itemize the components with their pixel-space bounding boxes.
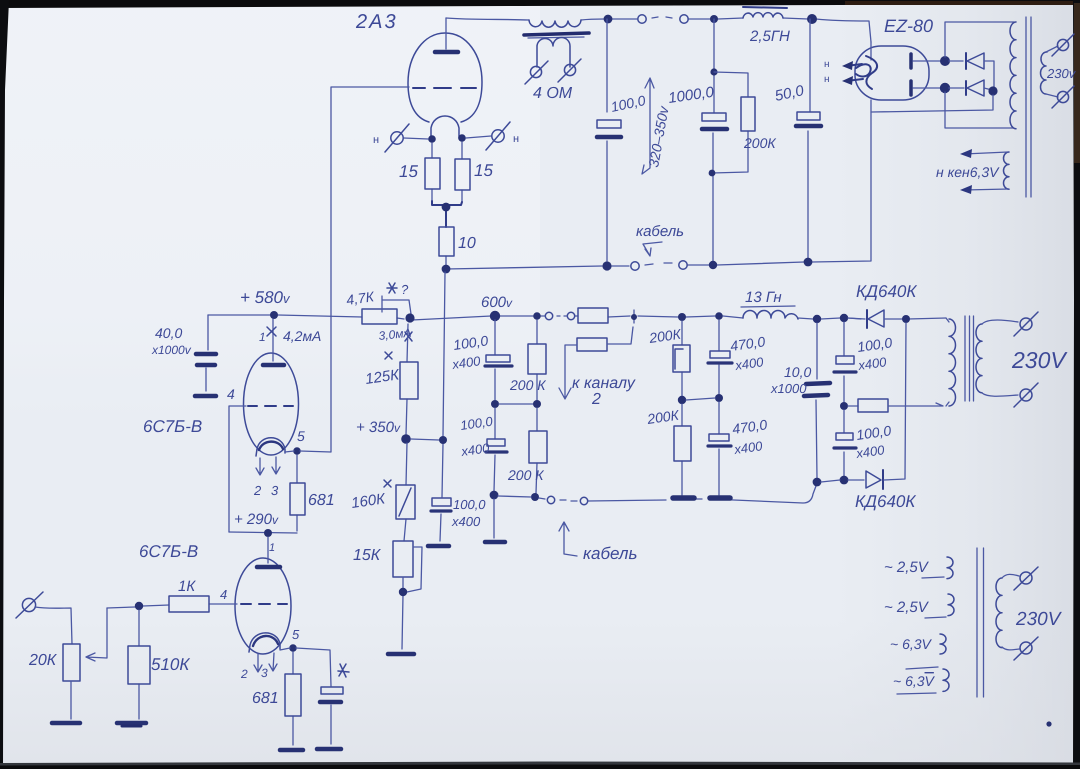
label 6S7B-V lower: [139, 542, 198, 561]
svg-text:2: 2: [253, 483, 262, 498]
svg-text:х1000: х1000: [770, 381, 807, 396]
wire B+ top bus y=19: [446, 18, 871, 42]
tube EZ-80 heater leads H arrows: [824, 59, 863, 85]
label 1K: [178, 578, 196, 595]
wire +290V bus: [229, 532, 297, 533]
resistor 200K psu bleeder: [712, 72, 755, 173]
svg-text:+ 580v: + 580v: [240, 288, 291, 307]
node dot col5 mid: [840, 402, 848, 410]
transformer mains 6,3V winding: [1004, 152, 1010, 189]
node dot driver anode: [270, 311, 278, 319]
ground 681 V2: [280, 748, 303, 753]
svg-text:15К: 15К: [353, 547, 382, 564]
label 15 right: [474, 161, 493, 180]
svg-text:н кен6,3V: н кен6,3V: [936, 164, 1000, 180]
svg-text:КД640К: КД640К: [855, 492, 916, 511]
node dot 50uF top: [807, 14, 817, 24]
connector o- -o bus: [631, 261, 687, 270]
transformer T3 winding 6,3V row4: [893, 667, 949, 694]
label +290V: [234, 511, 279, 528]
node dot 2A3 cathode return: [442, 265, 451, 274]
label 100,0 x400 at +350 column: [451, 497, 486, 529]
tube V2 6S7B envelope: [235, 558, 291, 654]
tube EZ-80 heater: [856, 56, 877, 89]
capacitor 100,0 first filter: [597, 19, 621, 261]
resistor 1K: [169, 596, 209, 612]
node dot rectifier output: [988, 86, 997, 95]
svg-text:10,0: 10,0: [784, 364, 811, 380]
svg-text:~ 6,3V: ~ 6,3V: [893, 673, 936, 689]
resistor 510K: [128, 610, 150, 719]
svg-text:EZ-80: EZ-80: [884, 16, 933, 36]
diode KD640K bottom: [848, 323, 906, 489]
node dot col3 mid: [678, 396, 686, 404]
terminal H right: [466, 122, 519, 150]
node dot 10,0 top: [813, 315, 821, 323]
choke 13Gn label underline: [741, 289, 795, 307]
choke L2 2,5Gn coil: [743, 13, 783, 18]
node dot B+ at OPT: [604, 15, 613, 24]
resistor 15 left: [425, 143, 440, 201]
transformer OPT secondary: [537, 38, 570, 68]
svg-text:15: 15: [399, 162, 418, 181]
arrows pins 2 3 V1: [253, 457, 280, 498]
svg-text:кабель: кабель: [583, 544, 637, 563]
resistor 200K col2 upper: [528, 320, 546, 400]
resistor 681 V1: [290, 455, 305, 531]
transformer T3 winding 6,3V row3: [890, 634, 946, 654]
svg-text:5: 5: [297, 428, 305, 444]
svg-text:230V: 230V: [1015, 609, 1063, 630]
label 230V T3: [1015, 609, 1063, 630]
svg-text:4 ОМ: 4 ОМ: [533, 85, 573, 102]
ground col1 below bus: [485, 499, 505, 542]
terminal T3 230V bottom: [1002, 637, 1038, 660]
ground 100,0 +350 column: [428, 544, 449, 549]
wire HV winding top to anode: [945, 22, 1014, 57]
terminal input jack: [16, 592, 43, 618]
node dot col5 bottom: [840, 476, 849, 485]
label 1 x 4,2mA: [259, 327, 321, 344]
label 2,5Gn: [749, 28, 790, 45]
capacitor 40,0 input B+: [196, 315, 216, 391]
label 100,0 x400 col1 lower: [459, 413, 494, 459]
label 15 left: [399, 162, 418, 181]
label 6S7B-V upper: [143, 417, 202, 436]
node dot diode top right: [902, 315, 910, 323]
wire filament join: [432, 201, 462, 227]
node dot V1 cathode: [293, 447, 301, 455]
resistor link to OPT primary: [848, 399, 943, 412]
potentiometer 20k: [63, 608, 107, 719]
label 1000,0: [667, 84, 715, 107]
connector o- -o 600V rail: [545, 312, 574, 319]
node dot col1 bus: [490, 491, 499, 500]
label 100,0 x400 col5 lower: [854, 422, 892, 461]
capacitor 100,0 col1 upper: [485, 320, 512, 400]
transformer mains core top: [1026, 17, 1031, 197]
mark star cathode cap: [338, 664, 349, 677]
resistor 200K col3 lower: [674, 404, 691, 495]
wire PSU ground bus y=265: [446, 112, 871, 269]
wire V1 cathode to 2A3 grid: [285, 87, 409, 452]
tube EZ-80 envelope: [855, 42, 929, 100]
resistor 4,7K with arrow: [362, 296, 411, 324]
label pin 5 V2: [292, 627, 300, 642]
capacitor 100,0 col5 upper: [834, 322, 856, 402]
label 10,0 x1000: [770, 364, 811, 396]
tube 2A3 envelope: [408, 33, 482, 122]
wire col3-col4 mid link: [686, 398, 715, 400]
wire +580V rail: [208, 315, 946, 320]
svg-text:4,2мА: 4,2мА: [283, 328, 321, 344]
label x 125k: [364, 352, 401, 388]
wire +350V to 2A3 cathode column: [411, 272, 445, 497]
terminal T3 230V top: [1002, 567, 1038, 590]
tube V1 cathode arch: [256, 438, 285, 456]
svg-text:~ 2,5V: ~ 2,5V: [884, 599, 930, 616]
ground 20k pot: [52, 721, 80, 726]
label 230V T2: [1011, 347, 1068, 373]
diode bottom at EZ-80: [949, 80, 992, 96]
label kabel bottom with arrow: [559, 522, 637, 563]
label 200K col3 lower: [645, 407, 680, 427]
node dot bus 50uF: [804, 258, 813, 267]
node dot 470 col4 top: [715, 312, 723, 320]
node dot 200K col2 top: [533, 312, 541, 320]
svg-text:~ 2,5V: ~ 2,5V: [884, 559, 930, 576]
label KD640K top: [856, 282, 917, 301]
svg-text:510К: 510К: [151, 655, 190, 674]
terminal T2 sec bottom: [982, 383, 1038, 407]
label 100,0 x400 col5 upper: [856, 334, 893, 373]
svg-text:4: 4: [220, 587, 227, 602]
svg-text:~ 6,3V: ~ 6,3V: [890, 636, 933, 652]
terminal 230V bottom: [1046, 86, 1074, 108]
label pin 1 V2: [269, 542, 275, 554]
label 100,0 x400 col1 upper: [450, 332, 489, 372]
connector o---o top B+: [638, 15, 688, 23]
svg-text:10: 10: [458, 235, 476, 252]
node dot col4 mid: [715, 394, 723, 402]
label EZ-80: [884, 16, 933, 36]
label n ken 6,3V: [936, 164, 1000, 180]
svg-text:кабель: кабель: [636, 223, 684, 240]
resistor link channel upper: [578, 308, 608, 323]
svg-text:600v: 600v: [481, 294, 513, 311]
terminal OPT out right: [558, 59, 581, 82]
svg-text:13 Гн: 13 Гн: [745, 289, 782, 306]
label pin 5 V1: [297, 428, 305, 444]
label 470,0 x400 col4 upper: [729, 333, 766, 373]
svg-text:681: 681: [252, 690, 279, 707]
wire channel bus y=500: [498, 486, 816, 503]
svg-text:х1000v: х1000v: [151, 343, 192, 357]
transformer T2 secondary coil: [976, 324, 982, 393]
node dot anode bottom: [940, 83, 950, 93]
svg-text:2: 2: [591, 391, 601, 408]
svg-text:200К: 200К: [743, 135, 776, 151]
node dot 1000uF top: [710, 15, 718, 23]
svg-text:40,0: 40,0: [155, 325, 182, 341]
tube V2 grid dashes: [241, 603, 287, 605]
node dot 10,0 bottom: [813, 478, 822, 487]
svg-text:5: 5: [292, 627, 300, 642]
node dot col2 bus: [531, 493, 539, 501]
label +350V: [356, 419, 401, 436]
label 10: [458, 235, 476, 252]
resistor 200K col2 lower: [529, 408, 547, 493]
label 230V top transformer: [1046, 66, 1077, 81]
svg-text:4: 4: [227, 386, 235, 402]
transformer mains HV winding: [1010, 22, 1016, 129]
label 200 K col2 lower: [507, 467, 544, 483]
svg-text:н: н: [373, 134, 379, 146]
tube V1 anode: [263, 319, 284, 365]
node dot filament left: [428, 135, 436, 143]
ground bar col3 on bus: [673, 495, 694, 501]
node dot 200K top tap: [710, 68, 717, 75]
ground 510K: [117, 723, 146, 726]
capacitor 10,0 x1000: [804, 323, 830, 478]
svg-text:230V: 230V: [1011, 347, 1068, 373]
node dot 200K bottom tap: [709, 170, 716, 177]
choke 13Gn coil: [743, 311, 798, 320]
transformer T3 winding 2,5V row1: [884, 557, 953, 579]
terminal OPT out left: [525, 61, 548, 84]
svg-text:х400: х400: [451, 514, 481, 529]
wire V2 cathode node: [280, 648, 331, 686]
pen dot mark: [1046, 721, 1051, 726]
capacitor 100,0 col5 lower: [834, 410, 856, 476]
label 20k: [28, 652, 58, 669]
label 470,0 x400 col4 lower: [731, 416, 768, 457]
tube V1 6S7B envelope: [244, 353, 299, 455]
transformer T2 core: [965, 316, 974, 401]
label 40,0 x1000v: [151, 325, 192, 357]
tube 2A3 grid dashes: [413, 87, 476, 89]
svg-text:2,5ГН: 2,5ГН: [749, 28, 790, 45]
svg-text:3: 3: [271, 483, 279, 498]
label Kabel top with arrow: [636, 223, 684, 256]
tube V1 grid dashes: [248, 405, 293, 407]
wire input to pot: [35, 607, 72, 644]
transformer T3 230V winding: [996, 578, 1002, 648]
ground star cap: [317, 747, 341, 752]
label 4 OM: [533, 85, 573, 102]
label 100,0 first filter: [609, 92, 647, 115]
capacitor 100,0 col1 lower: [486, 408, 507, 491]
label x 160k: [350, 480, 391, 512]
svg-text:2: 2: [240, 667, 248, 681]
svg-text:к каналу: к каналу: [572, 375, 636, 392]
svg-text:230v: 230v: [1046, 66, 1077, 81]
label 200 K col2 upper: [509, 377, 546, 393]
label pin 4 V2: [220, 587, 227, 602]
node dot 15K bottom: [399, 588, 407, 596]
wire 6,3V arrows: [960, 149, 1009, 194]
connector o- -o channel bus: [547, 496, 587, 504]
wire 10,0 to col5 bottom: [821, 480, 840, 482]
capacitor star cathode bypass: [320, 687, 343, 744]
node dot anode top: [940, 56, 950, 66]
label 510K: [151, 655, 190, 674]
transformer T3 winding 2,5V row2: [884, 594, 954, 618]
label 681 V2: [252, 690, 279, 707]
wire HV winding bottom to anode: [945, 92, 1014, 128]
label KD640K bottom: [855, 492, 916, 511]
node dot +290V: [264, 529, 272, 537]
choke L2 2,5Gn core line: [743, 7, 787, 8]
terminal H left: [373, 124, 428, 152]
diode top at EZ-80: [949, 53, 994, 87]
svg-text:6С7Б-В: 6С7Б-В: [143, 417, 202, 436]
capacitor 470,0 col4 lower: [708, 402, 731, 495]
svg-text:+ 350v: + 350v: [356, 419, 401, 436]
resistor 125K: [400, 324, 418, 435]
tube EZ-80 anode top: [911, 54, 941, 68]
node dot 510K: [135, 602, 143, 610]
capacitor 1000,0: [702, 19, 727, 261]
svg-text:н: н: [824, 74, 830, 85]
svg-text:1: 1: [269, 542, 275, 554]
node dot bus 1000uF: [709, 261, 717, 269]
wire col1-col2 mid link: [499, 403, 533, 405]
label 200K psu: [743, 135, 776, 151]
svg-text:КД640К: КД640К: [856, 282, 917, 301]
transformer mains 230V primary winding: [1041, 52, 1048, 94]
terminal T2 sec top: [982, 312, 1038, 336]
resistor 200K col3 upper: [673, 321, 690, 396]
resistor 160k: [396, 443, 415, 541]
node dot filament right: [458, 134, 466, 142]
label 681 V1: [308, 492, 335, 509]
mark x? 4,7K: [387, 282, 409, 297]
wire grid input line: [107, 604, 237, 608]
resistor 681 V2: [285, 652, 301, 745]
diode KD640K top: [848, 310, 903, 328]
svg-text:6С7Б-В: 6С7Б-В: [139, 542, 198, 561]
wire rectifier output to bus: [871, 95, 993, 112]
node dot 200K col3 top: [678, 313, 686, 321]
svg-text:1К: 1К: [178, 578, 196, 595]
label 4,7K: [345, 288, 375, 308]
terminal 230V top: [1046, 34, 1074, 56]
label 200K col3 upper: [647, 326, 682, 346]
transformer OPT primary coil: [529, 20, 581, 27]
tube EZ-80 anode bottom: [911, 81, 941, 95]
node dot 4,7K out: [405, 313, 414, 322]
resistor link to channel 2: [559, 327, 633, 399]
tube V2 cathode arch: [249, 633, 280, 652]
ground 40,0: [195, 394, 216, 399]
arrow 320-350V: [642, 78, 672, 174]
svg-text:200 К: 200 К: [509, 377, 546, 393]
resistor 10: [439, 227, 454, 265]
svg-text:3: 3: [261, 666, 268, 680]
svg-text:2А3: 2А3: [355, 11, 398, 33]
svg-text:681: 681: [308, 492, 335, 509]
ground 15K: [388, 652, 414, 657]
wire V1 grid return: [229, 406, 246, 532]
node dot column x444: [439, 436, 447, 444]
tube V2 anode: [257, 537, 280, 567]
node dot col1 mid: [491, 400, 499, 408]
label K kanalu 2: [572, 375, 636, 408]
svg-text:+ 290v: + 290v: [234, 511, 279, 528]
label +580V: [240, 288, 291, 307]
resistor 15 right: [455, 142, 470, 202]
label 15K: [353, 547, 382, 564]
capacitor 100,0 at +350 column: [431, 498, 451, 541]
tube 2A3 filament arch: [431, 116, 459, 139]
transformer OPT core: [524, 33, 589, 38]
label 2A3: [355, 11, 398, 33]
resistor 15K with side loop: [393, 541, 422, 649]
node tick link out: [631, 310, 637, 323]
node dot V2 cathode: [289, 644, 297, 652]
label pin 4 V1: [227, 386, 235, 402]
node dot +350V: [401, 434, 411, 444]
capacitor 50,0: [796, 19, 821, 258]
transformer T3 core: [977, 548, 984, 697]
capacitor 470,0 col4 upper: [708, 320, 732, 394]
svg-text:н: н: [513, 133, 519, 145]
svg-text:?: ?: [401, 282, 409, 297]
label 600V: [481, 294, 513, 311]
node dot 600V: [490, 311, 500, 321]
node dot bus-cathode: [602, 261, 611, 270]
arrows pins 2 3 V2: [240, 653, 277, 681]
svg-text:100,0: 100,0: [453, 497, 486, 512]
tube 2A3 anode: [435, 18, 458, 52]
node dot col2 mid: [533, 400, 541, 408]
transformer T2 primary coil: [946, 318, 956, 406]
svg-text:н: н: [824, 59, 830, 70]
label 3,0mA: [378, 326, 412, 343]
svg-text:1: 1: [259, 330, 266, 344]
svg-text:20К: 20К: [28, 652, 58, 669]
node dot filament join: [442, 203, 451, 212]
ground bar col4 on bus: [710, 495, 730, 501]
label 50,0: [773, 82, 806, 105]
node dot 100,0 col5 top: [840, 314, 848, 322]
svg-text:15: 15: [474, 161, 493, 180]
svg-text:200 К: 200 К: [507, 467, 544, 483]
